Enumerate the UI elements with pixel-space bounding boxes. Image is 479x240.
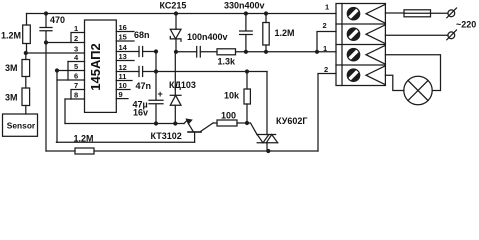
sensor box bbox=[3, 114, 38, 136]
wire pin10 stub bbox=[116, 89, 130, 91]
node pin12 wire / 10k top bbox=[245, 69, 249, 73]
wire row2 to connector bbox=[385, 34, 448, 36]
capacitor C47u plates bbox=[149, 100, 163, 104]
wire bus 47u top bbox=[155, 52, 157, 101]
svg-text:3M: 3M bbox=[5, 93, 18, 103]
zener VD1 bar with wings bbox=[170, 37, 181, 42]
wire thyristor anode drop bbox=[266, 72, 268, 135]
node C470 / pin2 rail bbox=[44, 40, 48, 44]
connector slash 1 bbox=[447, 8, 457, 18]
resistor R2 3M bbox=[22, 60, 30, 77]
transistor Q1 KT3102 bar bbox=[188, 131, 201, 133]
wire collector to R100 bbox=[213, 122, 217, 124]
svg-text:1: 1 bbox=[325, 3, 329, 12]
thyristor VS1 top bar bbox=[257, 134, 276, 136]
node top rail / R 1.2M right bbox=[264, 11, 268, 15]
wire rail3 right part bbox=[236, 51, 337, 53]
terminal block row dividers bbox=[336, 24, 385, 65]
connector circle 2 bbox=[448, 32, 455, 39]
node rail3 / terminal branch bbox=[315, 50, 319, 54]
svg-text:5: 5 bbox=[74, 62, 78, 71]
diode VD2 triangle bbox=[170, 95, 181, 105]
svg-text:1.2M: 1.2M bbox=[1, 31, 21, 41]
wire emitter end hook bbox=[184, 121, 187, 124]
capacitor C68n plates bbox=[139, 47, 143, 57]
fuse F1 inner line bbox=[404, 12, 431, 14]
wire bottom rail left bbox=[46, 150, 75, 152]
thyristor VS1 bottom bar bbox=[257, 142, 278, 144]
wire pin12 long line to thyristor anode corner bbox=[143, 71, 267, 73]
svg-text:Sensor: Sensor bbox=[7, 120, 36, 130]
svg-text:330n400v: 330n400v bbox=[224, 1, 265, 11]
capacitor C470 plates bbox=[40, 28, 52, 31]
lamp circle bbox=[404, 76, 432, 104]
wire pin6 line bbox=[57, 79, 85, 81]
terminal block outer box bbox=[336, 4, 385, 86]
connector circle 1 bbox=[448, 10, 455, 17]
wire base wire bbox=[57, 141, 195, 143]
svg-text:+: + bbox=[158, 89, 163, 99]
wire 10k top lead bbox=[246, 72, 248, 90]
fuse F1 box bbox=[404, 10, 431, 17]
transistor Q1 emitter diagonal bbox=[189, 124, 193, 131]
resistor R100 box bbox=[217, 120, 237, 126]
wire left drop to R1 bbox=[26, 14, 28, 26]
thyristor VS1 left triangle bbox=[257, 135, 269, 143]
op-amp U1 box 145AP2 bbox=[85, 20, 117, 112]
wire rail3 to 1.3k bbox=[200, 51, 217, 53]
wire pin2 rail bbox=[46, 42, 85, 44]
svg-text:2: 2 bbox=[324, 65, 328, 74]
wire pin13 stub bbox=[116, 60, 134, 62]
svg-text:100n400v: 100n400v bbox=[187, 32, 228, 42]
svg-text:15: 15 bbox=[119, 33, 127, 42]
node VD1 / rail3 bbox=[174, 50, 178, 54]
wire thyristor cathode bbox=[266, 143, 268, 151]
terminal screw 1 bbox=[347, 8, 359, 20]
wire row4 to lamp left bbox=[385, 75, 404, 90]
terminal screw 2 bbox=[347, 28, 359, 40]
terminal wedge 4 bbox=[366, 66, 385, 85]
wire line A down to base wire bbox=[56, 71, 59, 143]
svg-text:КТ3102: КТ3102 bbox=[151, 131, 182, 141]
capacitor C330n plates bbox=[240, 31, 253, 35]
capacitor C470 top lead bbox=[45, 14, 47, 28]
wire 47u bottom bbox=[155, 104, 157, 124]
terminal wedge 2 bbox=[366, 25, 385, 44]
svg-text:13: 13 bbox=[119, 52, 127, 61]
wire row3 to lamp right bbox=[385, 55, 440, 91]
svg-text:10: 10 bbox=[119, 81, 127, 90]
wire pin16 stub bbox=[116, 31, 134, 33]
svg-text:1.2M: 1.2M bbox=[275, 28, 295, 38]
wire pin5 line bbox=[57, 70, 85, 72]
svg-text:~220: ~220 bbox=[456, 20, 476, 30]
diode VD2 bottom lead bbox=[174, 105, 176, 123]
resistor R1.2M right top lead bbox=[265, 14, 267, 23]
wire pin4 stub bbox=[68, 61, 85, 63]
terminal screw 4 bbox=[347, 69, 359, 81]
wire emitter wire bbox=[65, 123, 184, 125]
terminal screw 3 bbox=[347, 49, 359, 61]
node 47u / emitter wire bbox=[154, 121, 158, 125]
svg-text:1.3k: 1.3k bbox=[218, 57, 237, 67]
node rail3 / R1.2M right bbox=[264, 50, 268, 54]
wire line B pin8 down to emitter wire bbox=[64, 99, 66, 124]
terminal wedge 1 bbox=[366, 4, 385, 23]
node rail3 / C330n bbox=[244, 50, 248, 54]
wire rail3 left part bbox=[176, 51, 197, 53]
svg-text:47n: 47n bbox=[136, 81, 152, 91]
wire row1 to fuse bbox=[385, 12, 404, 14]
wire rail3 branch up to terminal row2 bbox=[317, 32, 336, 52]
wire bracket pins4-6 bbox=[67, 62, 69, 81]
node gate wire / 10k bottom bbox=[245, 121, 249, 125]
wire pin3 line bbox=[26, 52, 85, 54]
diode VD2 KD103 top lead bbox=[174, 52, 176, 96]
wire pin15 stub bbox=[116, 40, 134, 42]
svg-text:3M: 3M bbox=[5, 63, 18, 73]
zener VD1 triangle bbox=[170, 29, 181, 39]
wire base stub up bbox=[194, 132, 196, 142]
wire top rail bbox=[27, 13, 337, 15]
svg-text:14: 14 bbox=[119, 43, 128, 52]
node R1/R2/pin3 bbox=[24, 51, 28, 55]
svg-text:1: 1 bbox=[323, 44, 327, 53]
zener VD1 KS215 top lead bbox=[175, 14, 177, 30]
wire fuse to terminal circle bbox=[431, 12, 449, 14]
svg-text:КУ602Г: КУ602Г bbox=[276, 116, 307, 126]
wire R3 to sensor bbox=[25, 106, 27, 115]
wire pin7 stub + bracket pins7-8 bbox=[71, 90, 85, 100]
resistor R10k box bbox=[244, 89, 250, 104]
resistor R1.2M right bottom lead bbox=[265, 45, 267, 52]
zener VD1 bottom lead bbox=[175, 39, 177, 52]
node pin5 / line A bbox=[55, 68, 59, 72]
capacitor C100n plates bbox=[197, 47, 201, 58]
resistor R1.2M right box bbox=[263, 23, 269, 46]
node pin14 / bus bbox=[154, 49, 158, 53]
svg-text:68n: 68n bbox=[134, 30, 150, 40]
svg-text:100: 100 bbox=[221, 111, 236, 121]
wire pin1 stub + bracket pins1-2 bbox=[71, 33, 85, 43]
svg-text:1: 1 bbox=[74, 24, 78, 33]
svg-text:11: 11 bbox=[119, 72, 127, 81]
wire pin9 stub bbox=[116, 98, 128, 100]
wire R2 to R3 bbox=[25, 77, 27, 89]
wire pin11 stub bbox=[116, 80, 132, 82]
node top rail / C470 bbox=[44, 11, 48, 15]
svg-text:6: 6 bbox=[74, 72, 78, 81]
svg-text:470: 470 bbox=[50, 15, 65, 25]
svg-text:2: 2 bbox=[323, 21, 327, 30]
diode VD2 bar bbox=[170, 94, 181, 96]
wire bottom rail right bbox=[94, 150, 318, 152]
wire pin8 line bbox=[65, 98, 85, 100]
resistor R1 1.2M left bbox=[23, 25, 31, 44]
svg-text:КД103: КД103 bbox=[169, 80, 196, 90]
capacitor C330n top lead bbox=[245, 14, 247, 31]
wire C470 bottom long drop bbox=[45, 31, 47, 151]
wire 10k bottom lead bbox=[246, 104, 248, 123]
node pin12 / bus bbox=[154, 69, 158, 73]
svg-text:КС215: КС215 bbox=[160, 1, 187, 11]
wire R100 to gate bbox=[237, 123, 257, 135]
wire pin14 line left part bbox=[116, 51, 139, 53]
resistor R1.2M bottom box bbox=[75, 148, 94, 154]
svg-text:12: 12 bbox=[119, 63, 127, 72]
svg-text:1.2M: 1.2M bbox=[74, 134, 94, 144]
node top rail / VD1 bbox=[174, 11, 178, 15]
svg-text:4: 4 bbox=[74, 53, 79, 62]
wire pin14 line right part bbox=[143, 51, 156, 53]
lamp cross bbox=[408, 81, 428, 101]
terminal wedge 3 bbox=[366, 45, 385, 64]
wire node to R2 bbox=[25, 53, 27, 60]
svg-text:9: 9 bbox=[119, 90, 123, 99]
wire bottom rail up to terminal row4 bbox=[318, 74, 336, 152]
svg-text:2: 2 bbox=[74, 34, 78, 43]
thyristor VS1 right triangle bbox=[266, 135, 277, 143]
svg-text:7: 7 bbox=[74, 81, 78, 90]
terminal block inner line bbox=[341, 4, 343, 86]
node top rail / C330n bbox=[244, 11, 248, 15]
capacitor C330n bottom lead bbox=[245, 35, 247, 52]
transistor Q1 emitter arrow bbox=[185, 118, 192, 124]
resistor R1.3k box bbox=[217, 49, 236, 55]
svg-text:145АП2: 145АП2 bbox=[88, 43, 103, 90]
svg-text:16v: 16v bbox=[133, 108, 148, 118]
svg-text:16: 16 bbox=[119, 23, 127, 32]
capacitor C47n plates bbox=[139, 67, 143, 77]
svg-text:8: 8 bbox=[74, 91, 78, 100]
resistor R3 3M bbox=[22, 88, 30, 106]
wire R1 bottom to node bbox=[26, 44, 27, 54]
transistor Q1 collector diagonal bbox=[201, 123, 214, 132]
connector slash 2 bbox=[447, 30, 457, 40]
wire pin12 line left part bbox=[116, 71, 139, 73]
node KD103 / emitter wire bbox=[173, 121, 177, 125]
node bottom rail / thyristor cathode bbox=[266, 149, 270, 153]
svg-text:10k: 10k bbox=[224, 91, 240, 101]
